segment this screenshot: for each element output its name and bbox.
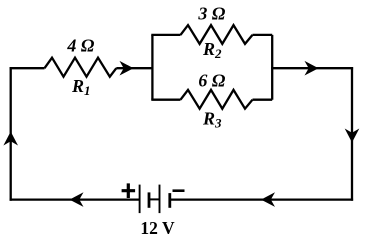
arrow current left (left of battery) xyxy=(70,192,84,207)
svg-text:12 V: 12 V xyxy=(140,218,175,238)
wire bottom branch left xyxy=(151,99,180,101)
svg-text:R2: R2 xyxy=(202,39,222,61)
wire R1 to junction xyxy=(116,67,152,69)
resistor R3 xyxy=(181,90,253,109)
svg-text:6 Ω: 6 Ω xyxy=(198,70,226,90)
arrow current up left side xyxy=(3,132,18,146)
svg-text:R3: R3 xyxy=(202,109,222,131)
wire top branch right xyxy=(253,34,273,36)
arrow current left (right of battery) xyxy=(261,192,275,207)
resistor R1 xyxy=(45,58,117,77)
battery cell plate short 2 xyxy=(168,193,171,208)
battery minus sign xyxy=(173,189,185,192)
wire bottom branch right xyxy=(253,99,273,101)
wire right vertical xyxy=(351,67,353,201)
wire bottom battery to left xyxy=(10,198,140,200)
wire top branch left xyxy=(151,34,180,36)
arrow current down right side xyxy=(345,129,360,143)
svg-text:3 Ω: 3 Ω xyxy=(197,4,226,24)
wire left vertical xyxy=(10,67,12,201)
svg-text:4 Ω: 4 Ω xyxy=(66,36,95,56)
svg-text:R1: R1 xyxy=(71,76,91,98)
wire bottom right to battery xyxy=(170,198,353,200)
arrow current out of parallel xyxy=(305,61,319,76)
wire parallel right vertical xyxy=(271,35,273,100)
battery cell plate long 1 xyxy=(139,185,141,214)
wire parallel out to right xyxy=(271,67,353,69)
battery plus sign xyxy=(122,183,136,198)
wire between battery cells xyxy=(149,198,160,200)
battery cell plate short 1 xyxy=(148,192,151,207)
wire parallel left vertical xyxy=(151,35,153,100)
battery cell plate long 2 xyxy=(159,185,161,214)
wire top-left horizontal xyxy=(10,67,45,69)
arrow current into parallel xyxy=(120,61,134,76)
resistor R2 xyxy=(181,25,253,44)
